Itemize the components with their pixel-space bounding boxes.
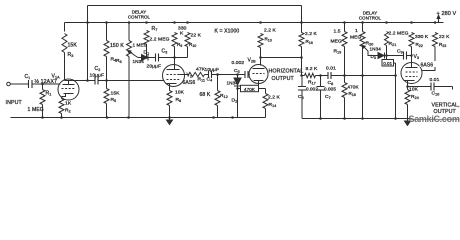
resistor R7 2.2MEG: [144, 31, 149, 45]
svg-text:10K: 10K: [409, 87, 419, 93]
junction R16/chain: [300, 74, 303, 77]
resistor R2: [59, 99, 64, 114]
wire R22 bottom: [411, 47, 413, 56]
capacitor C4: [209, 71, 212, 78]
wire C6 bottom: [301, 90, 303, 119]
resistor R4 150K: [104, 41, 109, 57]
wire R4 bottom: [106, 57, 108, 81]
ground symbol left: [167, 118, 173, 125]
svg-text:2.2 K: 2.2 K: [264, 28, 277, 34]
svg-text:1N34: 1N34: [227, 81, 239, 86]
svg-text:V2B: V2B: [248, 58, 257, 64]
wire cathode to output: [408, 86, 432, 88]
junction bus x411: [410, 21, 413, 24]
label 6AS6 V3 box: [420, 61, 439, 67]
svg-text:470K: 470K: [348, 85, 360, 90]
svg-text:1.5: 1.5: [334, 29, 341, 35]
cathode V3: [404, 80, 415, 82]
wire D1 to node: [148, 57, 153, 59]
wire C1 to grid: [32, 83, 60, 85]
wire link right drop: [301, 6, 303, 33]
cathode V2: [166, 83, 177, 85]
diode D3 1N34: [378, 53, 385, 59]
svg-text:R24: R24: [411, 94, 419, 100]
wire R13 bottom to V2B: [260, 48, 262, 66]
wire R16 bottom: [301, 47, 303, 76]
resistor R19 1.5MEG: [342, 32, 347, 47]
svg-text:0.01: 0.01: [383, 61, 392, 66]
wire C9 to V3: [407, 55, 412, 57]
wire top link: [88, 5, 302, 7]
svg-text:R2: R2: [65, 108, 71, 114]
diode D1 1N34: [142, 55, 149, 61]
junction bus x187: [186, 21, 189, 24]
junction R1 top: [41, 83, 44, 86]
svg-text:0.002: 0.002: [232, 60, 245, 66]
svg-text:2.2 MEG: 2.2 MEG: [150, 37, 170, 43]
resistor R23 22K: [433, 33, 438, 47]
diode D2 1N34: [234, 78, 241, 86]
potentiometer R6: [127, 41, 132, 57]
junction R13/wire: [259, 56, 262, 59]
wire ground bus left: [11, 117, 266, 119]
wire R20 bottom to ground: [362, 47, 364, 119]
capacitor C2: [95, 77, 98, 85]
wire +280V supply bus: [65, 22, 444, 24]
junction cathode/R24: [406, 85, 409, 88]
svg-text:1 MEG: 1 MEG: [28, 107, 44, 113]
resistor R24 10K: [405, 90, 410, 105]
wire +280V tick: [438, 19, 440, 23]
svg-text:10K: 10K: [175, 90, 185, 96]
svg-text:0.005: 0.005: [324, 87, 336, 92]
svg-text:D3: D3: [371, 54, 377, 60]
resistor R5 15K: [104, 89, 109, 104]
resistor R13 2.2K: [258, 34, 263, 48]
pin top V2: [174, 65, 176, 70]
svg-text:R10: R10: [189, 42, 196, 48]
junction ground left x42: [41, 116, 44, 119]
svg-text:10μμF: 10μμF: [205, 67, 220, 73]
wire D2 bottom: [237, 86, 239, 118]
grid3 V2: [167, 69, 180, 71]
svg-text:15K: 15K: [68, 43, 78, 49]
junction R20/chain: [361, 74, 364, 77]
wire V3 cathode down: [407, 81, 409, 87]
svg-text:MEG: MEG: [350, 35, 362, 41]
wire R7 bottom: [146, 45, 148, 58]
svg-text:R18: R18: [349, 91, 356, 97]
svg-text:K = X1000: K = X1000: [215, 29, 240, 35]
svg-text:C1: C1: [25, 74, 31, 80]
tube V2: [163, 65, 185, 87]
wire R11 to C4: [205, 74, 209, 76]
wire R9 node to V2 top: [174, 58, 176, 65]
junction bus x434.5: [434, 21, 437, 24]
resistor R21 2.2MEG: [385, 32, 389, 46]
svg-text:1N34: 1N34: [133, 59, 145, 64]
svg-text:R3: R3: [68, 52, 74, 58]
svg-text:150 K: 150 K: [110, 43, 124, 49]
capacitor C8: [328, 72, 331, 79]
capacitor C7: [317, 87, 325, 91]
capacitor C9: [404, 52, 407, 60]
wire C7 bottom: [320, 90, 322, 119]
wire R1 top: [42, 84, 44, 90]
resistor R16 2.2K: [299, 33, 304, 47]
svg-text:R9: R9: [177, 42, 182, 48]
resistor R3 15K: [62, 34, 67, 53]
svg-text:330 K: 330 K: [415, 34, 429, 40]
wire 470K to R14: [259, 88, 266, 90]
wiper R6: [128, 51, 137, 58]
plate V3: [406, 67, 418, 69]
svg-text:2.2 K: 2.2 K: [268, 95, 281, 101]
cathode V2B: [254, 80, 264, 82]
wire bus to R6: [128, 23, 130, 41]
svg-text:MEG: MEG: [331, 39, 343, 45]
junction ground left x128: [127, 116, 130, 119]
wire wiper R20 to D3: [368, 51, 378, 56]
svg-text:6AS6: 6AS6: [421, 62, 434, 68]
junction chain/C7: [319, 74, 322, 77]
junction ground left x232: [231, 116, 234, 119]
potentiometer R20: [360, 32, 365, 47]
junction link drop: [86, 79, 89, 82]
wiper R20: [362, 45, 368, 51]
arrow +280V: [437, 15, 440, 18]
resistor R1: [40, 90, 45, 105]
junction bus x362: [361, 21, 364, 24]
wire wiper to D1: [137, 56, 142, 59]
wire D3 to node: [385, 55, 404, 57]
svg-text:R7: R7: [152, 26, 158, 32]
grid2 V3 dashed: [406, 76, 418, 78]
wire C4 to C5: [212, 74, 246, 76]
grid V2 dashed: [167, 74, 180, 76]
junction R4/R5/C2: [105, 79, 108, 82]
resistor R11 47K: [189, 72, 205, 76]
junction R16/R13wire: [300, 56, 303, 59]
resistor R17 8.2K: [305, 73, 316, 77]
junction ground left x106.5: [106, 116, 109, 119]
svg-text:470K: 470K: [244, 87, 256, 92]
svg-text:C10: C10: [432, 91, 440, 97]
resistor R10 22K: [185, 33, 190, 47]
svg-text:R6: R6: [116, 58, 122, 64]
wire C8 onward: [331, 75, 396, 77]
wire input to C1: [10, 83, 28, 85]
wire V2 cathode to R8: [169, 84, 171, 91]
tube V3: [401, 63, 422, 84]
wire R2 bottom: [61, 114, 63, 118]
svg-text:8.2 K: 8.2 K: [306, 66, 319, 72]
resistor R14 2.2K: [263, 94, 268, 109]
svg-text:68 K: 68 K: [200, 92, 211, 98]
svg-text:R14: R14: [269, 102, 277, 108]
wire D2 top: [237, 75, 239, 79]
input terminal: [7, 82, 11, 86]
wire R23 bottom: [422, 47, 435, 71]
tube V2B: [249, 65, 268, 84]
capacitor C6: [298, 87, 306, 91]
svg-text:1K: 1K: [65, 101, 72, 107]
junction R22/C9: [410, 54, 413, 57]
wire R24 top: [407, 87, 409, 90]
svg-text:C3: C3: [162, 49, 168, 55]
resistor 470K box: [241, 85, 259, 91]
svg-text:V3: V3: [414, 54, 420, 60]
junction C4/D2: [236, 73, 239, 76]
resistor R18 470K: [342, 83, 347, 98]
junction bus x260: [259, 21, 262, 24]
svg-text:R19: R19: [334, 49, 342, 55]
svg-text:1: 1: [355, 28, 358, 34]
svg-text:SamkiC.com: SamkiC.com: [409, 114, 460, 124]
resistor R22 330K: [409, 33, 414, 47]
svg-text:VERTICAL,: VERTICAL,: [432, 103, 460, 109]
junction C3/R9: [173, 56, 176, 59]
wire V3 top pin: [411, 56, 413, 68]
wire R18 bottom: [344, 98, 346, 119]
capacitor C1: [29, 80, 33, 88]
svg-text:R5: R5: [111, 97, 117, 103]
svg-text:R16: R16: [306, 39, 313, 45]
junction C4/R12: [216, 73, 219, 76]
wire R9 bottom: [174, 47, 176, 58]
junction ground left x61: [60, 116, 63, 119]
plate V1A: [63, 81, 75, 85]
wire C6 top: [301, 76, 303, 87]
wire plate run: [65, 80, 96, 82]
resistor R9 330K: [172, 33, 177, 47]
cathode V1A: [62, 94, 74, 97]
wire C2 to V2 grid: [98, 80, 165, 82]
wire bus to R19: [344, 23, 346, 32]
junction bus x87: [86, 21, 89, 24]
junction D2/470K: [236, 87, 239, 90]
junction bus x344: [343, 21, 346, 24]
wire C7 top: [320, 76, 322, 87]
wire C5 to V2B: [248, 74, 250, 76]
svg-text:R13: R13: [265, 37, 272, 43]
wire R14 bottom: [265, 109, 267, 118]
wire R5 bottom: [106, 104, 108, 118]
wire R13 node to R16: [261, 57, 302, 59]
svg-text:INPUT: INPUT: [6, 100, 23, 106]
svg-text:R12: R12: [220, 93, 228, 99]
svg-text:2.2 K: 2.2 K: [305, 31, 318, 37]
wire R3 bottom to plate node: [64, 53, 66, 81]
junction chain/395: [394, 74, 397, 77]
svg-text:0.01: 0.01: [430, 77, 440, 83]
wire R14 top: [265, 89, 267, 94]
tube V1A: [58, 79, 79, 100]
grid2 V2 dashed: [167, 79, 180, 81]
junction ground right x344: [343, 117, 346, 120]
junction bus x106: [105, 21, 108, 24]
svg-text:C9: C9: [397, 49, 403, 55]
wire D2 to 470K: [238, 88, 241, 90]
svg-text:0.01: 0.01: [326, 66, 336, 72]
svg-text:20μμF: 20μμF: [147, 64, 162, 70]
junction ground left x213: [212, 116, 215, 119]
svg-text:10μμF: 10μμF: [90, 73, 105, 79]
wire R6 bottom to ground: [128, 57, 130, 118]
svg-text:R1: R1: [46, 91, 52, 97]
capacitor 0.01 box: [382, 60, 394, 67]
capacitor C3: [156, 54, 159, 62]
svg-text:C7: C7: [325, 94, 331, 100]
svg-text:CONTROL: CONTROL: [359, 15, 382, 20]
junction ground left x169: [168, 116, 171, 119]
svg-text:1N34: 1N34: [370, 47, 382, 52]
svg-text:2.2 MEG: 2.2 MEG: [389, 31, 409, 37]
wire bus to R20: [362, 23, 364, 32]
svg-text:CONTROL: CONTROL: [128, 14, 151, 19]
wire R17 to C8: [316, 75, 329, 77]
junction bus x146: [145, 21, 148, 24]
junction bus x301: [300, 21, 303, 24]
wire link left drop: [87, 6, 89, 81]
grid V2B dashed: [253, 73, 265, 75]
svg-text:22 K: 22 K: [439, 34, 450, 40]
capacitor C5: [245, 71, 248, 78]
svg-text:R11: R11: [198, 77, 206, 83]
svg-text:+ 280 V: + 280 V: [437, 11, 457, 17]
wire R5 top: [106, 81, 108, 89]
junction ground right x362: [361, 117, 364, 120]
svg-text:C6: C6: [298, 94, 304, 100]
junction R19/chain: [343, 74, 346, 77]
svg-text:R21: R21: [389, 41, 397, 47]
junction ground right x395: [394, 117, 397, 120]
junction R21/D3: [385, 54, 388, 57]
svg-text:R17: R17: [308, 80, 316, 86]
junction bus x386: [385, 21, 388, 24]
svg-text:C5: C5: [234, 68, 240, 74]
wire R1 bottom: [42, 105, 44, 118]
svg-text:OUTPUT: OUTPUT: [272, 76, 295, 82]
junction bus x128.5: [128, 21, 131, 24]
wire box top pin: [386, 56, 388, 60]
svg-text:22 K: 22 K: [191, 33, 202, 39]
plate V2B: [253, 68, 265, 70]
wire R24 bottom: [407, 105, 409, 119]
svg-text:HORIZONTAL: HORIZONTAL: [269, 69, 304, 75]
svg-text:R8: R8: [176, 97, 182, 103]
svg-text:D2: D2: [232, 98, 238, 104]
grid V1A: [62, 88, 76, 90]
junction R7/D1: [145, 56, 148, 59]
wire ground bus right: [302, 118, 411, 120]
wire chain start: [302, 75, 305, 77]
wire R18 top: [344, 76, 346, 83]
wire R21 bottom: [386, 46, 388, 56]
svg-text:R22: R22: [416, 42, 423, 48]
svg-text:C2: C2: [95, 66, 101, 72]
ground symbol right: [405, 119, 411, 126]
svg-text:½ 12AX7: ½ 12AX7: [35, 78, 58, 85]
wire R12 bottom: [217, 106, 219, 118]
wire V2B cathode: [258, 81, 260, 86]
wire node to C3: [153, 57, 156, 59]
capacitor C10: [431, 83, 434, 91]
resistor R12 68K: [215, 91, 220, 106]
junction ground right x320: [319, 117, 322, 120]
svg-text:6AS6: 6AS6: [183, 80, 196, 86]
svg-text:R23: R23: [439, 42, 446, 48]
wire V2 plate out: [180, 74, 189, 76]
svg-text:15K: 15K: [111, 91, 121, 97]
wire C10 to terminal: [434, 87, 453, 90]
wire bus to R4: [106, 23, 108, 41]
junction bus x174: [173, 21, 176, 24]
wire R12 top: [217, 75, 219, 91]
grid V3 dashed: [406, 71, 418, 73]
svg-text:0.002: 0.002: [306, 87, 318, 92]
wire C3 to R10 node: [159, 57, 188, 59]
wire cathode to R2: [61, 97, 63, 99]
wire R10 bottom: [187, 47, 189, 58]
wire R19 bottom: [344, 47, 346, 76]
resistor R8 10K: [167, 91, 172, 106]
wire bus to R3: [64, 23, 66, 32]
wire R8 bottom: [169, 106, 171, 118]
wire box to ground: [394, 63, 396, 119]
svg-text:C8: C8: [328, 80, 334, 86]
